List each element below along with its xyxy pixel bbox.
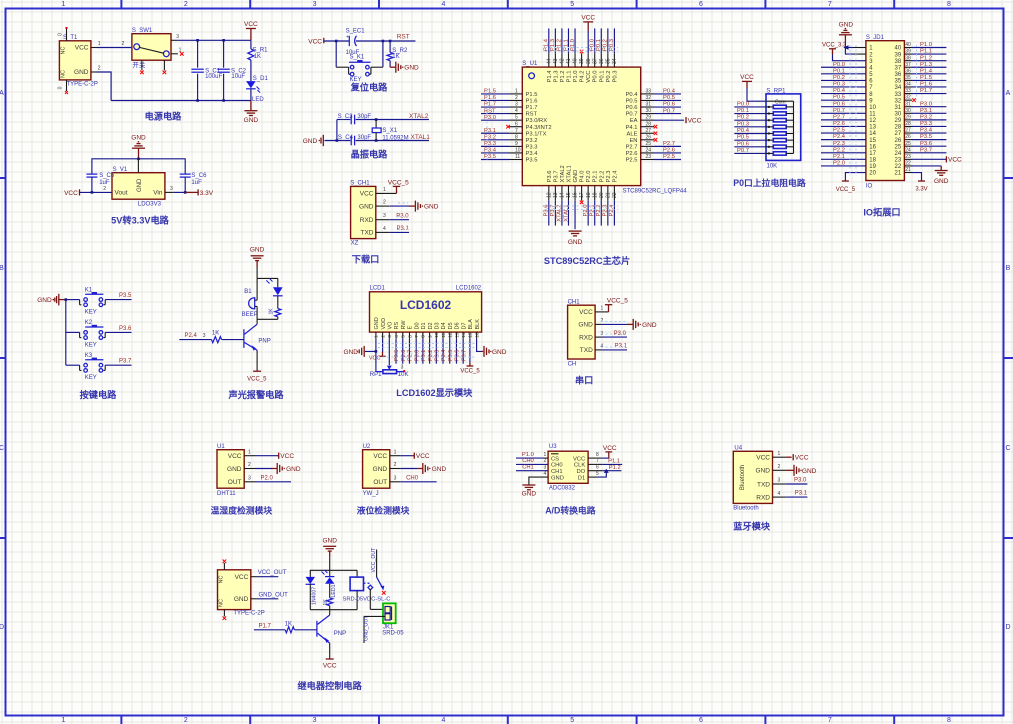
svg-text:D: D	[0, 624, 4, 631]
wire DHT11 pin2 GND	[244, 468, 255, 470]
svg-text:30: 30	[895, 112, 902, 118]
pull-up resistor row P0.2	[734, 119, 766, 121]
JD1 right wire P3.5	[912, 139, 946, 141]
svg-text:26: 26	[905, 134, 911, 140]
svg-text:P2.7: P2.7	[408, 350, 414, 361]
svg-text:S_CH1: S_CH1	[350, 180, 370, 186]
svg-text:10K: 10K	[767, 164, 778, 170]
svg-text:25: 25	[905, 141, 911, 147]
svg-text:P1.1: P1.1	[608, 459, 620, 465]
JD1 right wire P1.1	[912, 53, 946, 55]
svg-text:33: 33	[905, 88, 911, 94]
svg-text:P1.7: P1.7	[526, 105, 538, 111]
svg-text:20: 20	[599, 192, 605, 198]
svg-text:LDO3V3: LDO3V3	[138, 201, 162, 207]
svg-text:VCC_5: VCC_5	[607, 298, 628, 305]
wire P1.7 to base	[254, 629, 285, 631]
svg-text:CH0: CH0	[522, 458, 534, 464]
wire CH1 pin2 to GND	[376, 205, 390, 207]
svg-text:S_SW1: S_SW1	[132, 28, 153, 34]
svg-text:34: 34	[612, 58, 618, 64]
svg-text:8: 8	[947, 717, 951, 724]
svg-text:26: 26	[646, 134, 652, 140]
svg-text:14: 14	[461, 332, 467, 338]
svg-text:XTAL1: XTAL1	[563, 205, 569, 222]
svg-text:S_K1: S_K1	[350, 55, 365, 61]
relay T2 bottom stub	[223, 610, 225, 617]
transistor PNP relay	[329, 610, 331, 615]
wire JK1 to GND_OUT	[364, 615, 385, 617]
svg-text:3: 3	[170, 186, 173, 192]
svg-text:P3.5: P3.5	[920, 134, 932, 140]
svg-text:XTAL1: XTAL1	[411, 134, 431, 141]
svg-text:Bluetooth: Bluetooth	[733, 506, 758, 512]
button K2 KEY	[66, 331, 80, 333]
svg-text:GND: GND	[303, 138, 318, 145]
wire DHT11 pin3 P2.0	[244, 481, 255, 483]
svg-text:5: 5	[401, 335, 407, 338]
svg-text:VCC_5: VCC_5	[836, 187, 856, 193]
JD1 right wire P1.0	[912, 47, 946, 49]
wire CH1 pin4 P3.1	[376, 231, 390, 233]
power port VCC pull-up	[742, 80, 752, 82]
connector S_T1 (TYPE-C-2P)	[59, 41, 91, 80]
svg-text:1K: 1K	[323, 599, 329, 606]
svg-text:P3.2: P3.2	[526, 138, 538, 144]
svg-text:P0.6: P0.6	[455, 350, 461, 361]
svg-text:VCC_OUT: VCC_OUT	[258, 570, 287, 576]
svg-text:GND: GND	[373, 466, 388, 473]
ground GND of U1	[569, 230, 582, 232]
wire emitter to VCC_5	[256, 350, 258, 371]
ground GND of R2	[390, 66, 395, 68]
svg-text:5: 5	[570, 717, 574, 724]
svg-text:1: 1	[383, 187, 386, 193]
svg-text:S_T1: S_T1	[63, 35, 78, 41]
svg-text:37: 37	[895, 65, 902, 71]
svg-text:P2.0: P2.0	[261, 476, 274, 482]
JD1 left wire P0.5	[821, 99, 866, 101]
svg-text:18: 18	[869, 158, 876, 164]
JD1 right wire P1.3	[912, 66, 946, 68]
svg-text:1K: 1K	[392, 54, 399, 60]
svg-text:RST: RST	[397, 34, 410, 41]
svg-text:29: 29	[895, 118, 902, 124]
svg-text:GND: GND	[934, 178, 949, 185]
resistor S_R1 1K	[250, 40, 252, 49]
capacitor S_C6 1uF	[180, 173, 191, 175]
svg-text:GND: GND	[802, 468, 817, 475]
svg-text:VCC: VCC	[416, 453, 430, 460]
svg-text:P2.1: P2.1	[593, 171, 599, 183]
svg-text:VCC: VCC	[323, 662, 337, 669]
svg-text:5: 5	[515, 115, 518, 121]
svg-text:P1.5: P1.5	[484, 89, 496, 95]
svg-text:P0.0: P0.0	[833, 62, 845, 68]
svg-text:P2.4: P2.4	[185, 333, 198, 339]
svg-text:42: 42	[560, 58, 566, 64]
svg-text:6: 6	[407, 335, 413, 338]
svg-text:18: 18	[586, 192, 592, 198]
svg-text:30pF: 30pF	[357, 114, 371, 120]
svg-text:P0.6: P0.6	[737, 141, 749, 147]
svg-text:17: 17	[869, 151, 876, 157]
svg-text:GND: GND	[244, 117, 259, 124]
svg-text:D: D	[1005, 624, 1010, 631]
svg-text:EA: EA	[630, 118, 638, 124]
svg-text:P1.5: P1.5	[526, 92, 538, 98]
svg-text:31: 31	[646, 102, 652, 108]
wire ADC VCC pin8	[588, 457, 602, 459]
svg-text:按键电路: 按键电路	[80, 389, 118, 400]
svg-text:23: 23	[905, 154, 911, 160]
wire emitter to VCC relay	[329, 643, 331, 659]
svg-text:P1.4: P1.4	[547, 70, 553, 83]
wire YWJ pin2 GND	[390, 468, 401, 470]
svg-text:38: 38	[895, 59, 902, 65]
svg-text:P2.5: P2.5	[626, 158, 638, 164]
svg-text:P3.5: P3.5	[119, 293, 132, 299]
capacitor S_C4 30pF	[350, 136, 352, 146]
svg-text:GND: GND	[374, 317, 380, 329]
JD1 right wire P1.6	[912, 86, 946, 88]
svg-text:VCC: VCC	[228, 453, 242, 460]
LCD wire P2.6	[402, 339, 404, 364]
JD1 right wire P1.4	[912, 73, 946, 75]
svg-text:D2: D2	[428, 322, 434, 329]
wire XTAL2 row	[337, 119, 350, 121]
svg-text:P0.6: P0.6	[626, 105, 638, 111]
svg-text:28: 28	[646, 121, 652, 127]
button K1 KEY	[66, 299, 80, 301]
wire serial pin3 P3.0	[595, 336, 601, 338]
svg-text:GND: GND	[74, 69, 89, 76]
svg-text:44: 44	[546, 58, 552, 64]
svg-text:2: 2	[184, 717, 188, 724]
capacitor S_C5 1uF	[86, 173, 97, 175]
svg-text:39: 39	[895, 52, 902, 58]
svg-text:S_R2: S_R2	[392, 48, 408, 54]
svg-text:7: 7	[596, 458, 599, 464]
svg-text:P1.0: P1.0	[920, 42, 932, 48]
wire CH1 serial pin1 VCC_5	[595, 311, 608, 313]
svg-text:GND: GND	[756, 468, 771, 475]
wire BT pin1 VCC	[773, 456, 787, 458]
svg-text:3: 3	[176, 34, 179, 40]
svg-text:CLK: CLK	[574, 463, 585, 469]
svg-text:P3.0: P3.0	[484, 115, 496, 121]
JD1 left wire P0.4	[821, 93, 866, 95]
svg-text:PNP: PNP	[334, 631, 346, 637]
power port VCC	[246, 28, 256, 30]
svg-text:A: A	[0, 90, 4, 97]
JD1 left wire P0.2	[821, 79, 866, 81]
svg-text:P0.2: P0.2	[833, 75, 845, 81]
svg-text:VCC_5: VCC_5	[388, 180, 409, 187]
svg-text:B: B	[1006, 265, 1011, 272]
ground GND alarm	[251, 255, 264, 257]
LCD wire P2.5	[395, 339, 397, 364]
svg-text:15: 15	[869, 138, 876, 144]
JD1 right wire P1.2	[912, 60, 946, 62]
svg-text:3: 3	[387, 335, 393, 338]
svg-text:P2.7: P2.7	[626, 144, 638, 150]
svg-text:P2.3: P2.3	[606, 171, 612, 183]
svg-text:P0.6: P0.6	[833, 101, 845, 107]
svg-text:P3.2: P3.2	[920, 114, 932, 120]
svg-text:VCC: VCC	[579, 309, 593, 316]
svg-text:37: 37	[905, 62, 911, 68]
svg-text:33: 33	[895, 92, 902, 98]
svg-text:RS: RS	[394, 322, 400, 330]
JD1 left wire P2.4	[821, 139, 866, 141]
svg-text:27: 27	[646, 128, 652, 134]
svg-text:P3.6: P3.6	[119, 326, 132, 332]
svg-text:CH: CH	[568, 361, 577, 367]
svg-text:27: 27	[895, 131, 902, 137]
svg-text:24: 24	[895, 151, 902, 157]
svg-text:XTAL2: XTAL2	[409, 113, 429, 120]
JD1 pin22 to GND	[912, 165, 941, 167]
svg-text:P3.1: P3.1	[795, 491, 808, 497]
svg-text:NC: NC	[219, 599, 225, 607]
connector TYPE-C-2P relay	[218, 570, 251, 610]
diode 1N4007	[309, 570, 311, 577]
svg-text:14: 14	[560, 192, 566, 198]
svg-text:P3.0/RX: P3.0/RX	[526, 118, 548, 124]
svg-text:31: 31	[905, 101, 911, 107]
JD1 right wire P1.7	[912, 93, 946, 95]
svg-text:28: 28	[905, 121, 911, 127]
svg-text:P0.4: P0.4	[626, 92, 639, 98]
svg-text:RST: RST	[526, 112, 538, 118]
svg-text:8: 8	[421, 335, 427, 338]
svg-text:13: 13	[553, 192, 559, 198]
svg-text:VCC: VCC	[581, 14, 595, 21]
JD1 pin21 to 3.3V	[912, 173, 922, 181]
alarm bottom node wire	[257, 318, 278, 320]
svg-text:NC: NC	[61, 70, 67, 78]
svg-text:1uF: 1uF	[99, 180, 110, 186]
svg-text:3.3V: 3.3V	[915, 187, 927, 193]
svg-text:33: 33	[646, 89, 652, 95]
svg-text:28: 28	[895, 125, 902, 131]
svg-text:P0.7: P0.7	[663, 108, 675, 114]
wire ADC CS P1.0	[543, 457, 548, 459]
wire Vin to 3.3V	[165, 191, 173, 193]
JD1 right wire P3.3	[912, 125, 946, 127]
svg-text:P0.1: P0.1	[737, 108, 749, 114]
svg-text:P1.2: P1.2	[609, 465, 621, 471]
svg-text:XTAL1: XTAL1	[566, 165, 572, 182]
svg-text:P0.3: P0.3	[612, 71, 618, 83]
svg-text:5V转3.3V电路: 5V转3.3V电路	[111, 214, 170, 225]
svg-text:P0.4: P0.4	[737, 128, 750, 134]
svg-text:3.3V: 3.3V	[200, 190, 214, 197]
svg-text:30pF: 30pF	[357, 135, 371, 141]
svg-text:25: 25	[895, 144, 902, 150]
svg-text:+: +	[250, 306, 253, 311]
svg-text:P0.0: P0.0	[414, 350, 420, 361]
svg-text:20: 20	[869, 171, 876, 177]
svg-text:36: 36	[905, 68, 911, 74]
svg-text:P1.6: P1.6	[526, 99, 538, 105]
svg-text:VDD: VDD	[381, 318, 387, 330]
U1 right pins	[641, 93, 654, 95]
svg-text:GND: GND	[432, 466, 447, 473]
capacitor S_C3 30pF	[350, 115, 352, 125]
svg-text:VCC: VCC	[948, 157, 962, 164]
svg-text:P2.1: P2.1	[833, 154, 845, 160]
wire SW1.3 to VCC rail	[171, 39, 178, 41]
svg-text:P1.7: P1.7	[484, 102, 496, 108]
svg-text:RW: RW	[401, 320, 407, 330]
wire to RST	[383, 40, 416, 42]
svg-text:30: 30	[646, 108, 652, 114]
svg-text:RST: RST	[484, 108, 496, 114]
svg-text:P0.4: P0.4	[663, 89, 676, 95]
svg-text:26: 26	[895, 138, 902, 144]
svg-text:11: 11	[441, 332, 447, 337]
svg-text:EN: EN	[629, 138, 637, 144]
svg-text:13: 13	[454, 332, 460, 338]
svg-text:19: 19	[869, 164, 876, 170]
svg-text:4: 4	[778, 491, 781, 497]
svg-text:LED1: LED1	[331, 584, 337, 597]
svg-text:15: 15	[566, 192, 572, 198]
ground GND relay	[323, 545, 336, 547]
svg-text:P0.2: P0.2	[603, 39, 609, 51]
svg-text:1K: 1K	[212, 331, 219, 337]
svg-text:Vin: Vin	[153, 190, 163, 197]
svg-text:RXD: RXD	[579, 334, 593, 341]
svg-text:15: 15	[468, 332, 474, 338]
ground GND power	[250, 101, 252, 111]
wire LDO top rail	[92, 159, 185, 174]
JD1 right wire P1.5	[912, 79, 946, 81]
svg-text:S_U1: S_U1	[522, 61, 538, 67]
svg-text:2: 2	[515, 95, 518, 101]
JD1 left wire P0.0	[821, 66, 866, 68]
svg-text:NC: NC	[61, 47, 67, 55]
svg-text:40: 40	[573, 58, 579, 64]
svg-text:CH1: CH1	[522, 464, 534, 470]
wire CH1 pin1 to VCC_5	[376, 192, 397, 194]
svg-text:TYPE-C-2P: TYPE-C-2P	[233, 610, 264, 616]
svg-text:XTAL2: XTAL2	[560, 165, 566, 182]
svg-text:液位检测模块: 液位检测模块	[357, 504, 410, 515]
svg-text:29: 29	[646, 115, 652, 121]
svg-text:9: 9	[515, 141, 518, 147]
LCD wire P0.6	[455, 339, 457, 364]
svg-text:P1.0: P1.0	[570, 39, 576, 51]
svg-text:P3.7: P3.7	[119, 359, 132, 365]
JD1 right wire P3.4	[912, 132, 946, 134]
svg-text:P0.0: P0.0	[593, 71, 599, 83]
pull-up resistor row P0.4	[734, 133, 766, 135]
relay coil SRD-05VDC-SL-C	[356, 570, 358, 577]
svg-text:D1: D1	[421, 322, 427, 329]
svg-text:STC89C52RC_LQFP44: STC89C52RC_LQFP44	[623, 189, 688, 195]
svg-text:P4.0: P4.0	[580, 171, 586, 183]
svg-text:VCC_OUT: VCC_OUT	[371, 547, 377, 573]
svg-text:D7: D7	[461, 322, 467, 329]
svg-text:串口: 串口	[575, 374, 593, 385]
svg-text:GND: GND	[492, 349, 507, 356]
svg-text:3: 3	[203, 333, 206, 339]
SW1 bottom stubs with no-connect	[141, 60, 143, 70]
svg-text:P0.1: P0.1	[596, 39, 602, 51]
svg-text:CH0: CH0	[406, 476, 419, 482]
svg-text:16: 16	[573, 192, 579, 198]
JD1 left wire P2.3	[821, 145, 866, 147]
resistor S_R2 1K	[389, 41, 391, 52]
svg-text:P0.7: P0.7	[833, 108, 845, 114]
svg-text:8: 8	[596, 452, 599, 458]
LCD wire P0.3	[435, 339, 437, 364]
svg-text:1: 1	[62, 717, 66, 724]
svg-text:4: 4	[544, 471, 547, 477]
svg-text:VCC: VCC	[756, 455, 770, 462]
JD1 right wire P3.0	[912, 106, 946, 108]
S_T1 bottom stub	[66, 80, 68, 91]
LCD wire P0.2	[429, 339, 431, 364]
svg-text:D1: D1	[578, 475, 585, 481]
svg-text:晶振电路: 晶振电路	[351, 148, 389, 159]
svg-text:A/D转换电路: A/D转换电路	[545, 504, 596, 515]
svg-text:RXD: RXD	[360, 217, 374, 224]
svg-text:7: 7	[414, 335, 420, 338]
svg-text:CH0: CH0	[551, 463, 563, 469]
svg-text:7: 7	[828, 717, 832, 724]
svg-text:P0.2: P0.2	[428, 350, 434, 361]
svg-text:10: 10	[515, 148, 521, 154]
svg-text:38: 38	[586, 58, 592, 64]
svg-text:P3.3: P3.3	[526, 144, 538, 150]
wire XTAL1 row	[325, 140, 351, 142]
power bottom rail wire	[111, 100, 251, 102]
svg-text:4: 4	[441, 1, 445, 8]
svg-text:5: 5	[596, 471, 599, 477]
wire DHT11 pin1 VCC	[244, 455, 255, 457]
power port 3.3V	[197, 189, 199, 195]
svg-text:VCC: VCC	[603, 445, 617, 452]
svg-text:VCC_3.3: VCC_3.3	[822, 42, 847, 48]
svg-text:P1.6: P1.6	[920, 82, 932, 88]
svg-text:DO: DO	[576, 469, 585, 475]
svg-text:S_C5: S_C5	[99, 173, 115, 179]
svg-text:ADC0832: ADC0832	[549, 486, 576, 492]
svg-text:VCC: VCC	[740, 74, 754, 81]
svg-text:P0.6: P0.6	[663, 102, 675, 108]
svg-text:P3.3: P3.3	[484, 141, 496, 147]
svg-text:P1.2: P1.2	[557, 39, 563, 51]
LCD wire P0.4	[442, 339, 444, 364]
pull-up resistor row P0.3	[734, 126, 766, 128]
svg-text:16: 16	[474, 332, 480, 338]
svg-text:GND: GND	[137, 178, 143, 192]
capacitor S_C2 10uF	[223, 40, 225, 67]
keys left bus wire	[65, 300, 67, 366]
svg-text:P1.1: P1.1	[920, 49, 932, 55]
svg-text:6: 6	[515, 121, 518, 127]
svg-text:10: 10	[869, 105, 876, 111]
wire ADC CH0	[516, 463, 548, 465]
svg-text:P1.3: P1.3	[550, 39, 556, 51]
svg-text:VCC: VCC	[280, 453, 294, 460]
svg-text:6: 6	[699, 717, 703, 724]
wire T1.VCC to switch	[91, 47, 97, 49]
